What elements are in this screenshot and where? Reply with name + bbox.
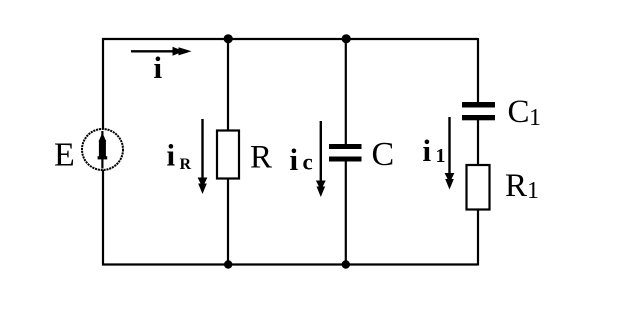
svg-text:C: C bbox=[372, 136, 395, 173]
svg-text:C: C bbox=[508, 94, 530, 130]
svg-text:i: i bbox=[154, 50, 163, 85]
svg-text:R: R bbox=[250, 140, 272, 176]
svg-text:i: i bbox=[167, 138, 176, 173]
svg-text:i: i bbox=[290, 142, 299, 177]
svg-text:1: 1 bbox=[529, 105, 541, 131]
svg-text:1: 1 bbox=[527, 178, 539, 204]
svg-text:R: R bbox=[180, 156, 192, 173]
svg-text:1: 1 bbox=[436, 145, 446, 167]
svg-text:c: c bbox=[303, 150, 313, 175]
svg-text:i: i bbox=[423, 133, 432, 168]
svg-text:E: E bbox=[54, 137, 75, 174]
svg-text:R: R bbox=[505, 168, 527, 204]
